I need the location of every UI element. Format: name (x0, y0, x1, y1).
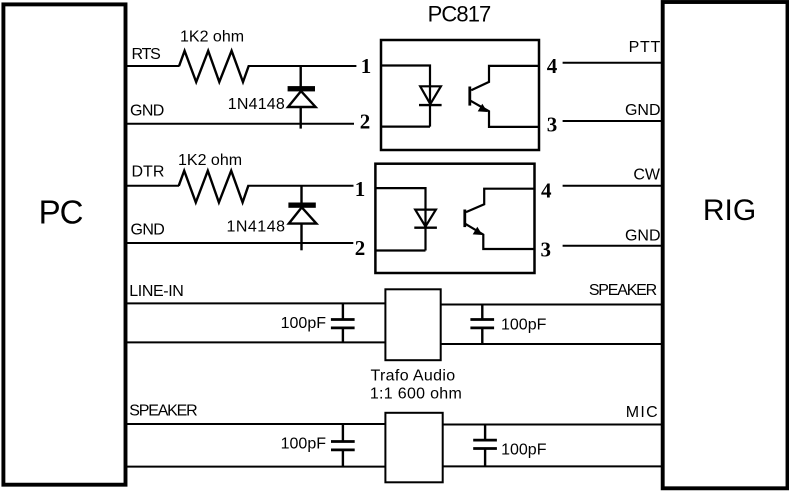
transformer T2 box (Trafo Audio) (385, 413, 442, 483)
pin 2 (U1) (360, 110, 371, 134)
LED inside U1 (419, 86, 442, 105)
svg-text:SPEAKER: SPEAKER (589, 282, 657, 299)
node SPEAKER label (PC side) (129, 403, 197, 420)
wire PTT from U1 pin4 to RIG (563, 62, 662, 64)
transformer T1 box (Trafo Audio) (385, 289, 440, 360)
node PTT label (629, 39, 661, 56)
diode D1 1N4148 label (228, 96, 285, 113)
capacitor C4 value (501, 442, 547, 459)
node DTR label (132, 163, 165, 180)
svg-text:LINE-IN: LINE-IN (129, 283, 183, 300)
optocoupler U2 PC817 box (375, 164, 534, 273)
svg-text:PC817: PC817 (428, 2, 491, 27)
node GND label (PC, row1) (130, 103, 164, 120)
svg-text:1K2 ohm: 1K2 ohm (178, 152, 242, 169)
svg-text:1:1 600 ohm: 1:1 600 ohm (370, 386, 462, 403)
capacitor C1 value (281, 315, 327, 332)
node GND label (PC, row2) (131, 221, 165, 238)
svg-text:MIC: MIC (626, 404, 659, 421)
capacitor C1 100pF (331, 303, 355, 342)
svg-text:4: 4 (547, 54, 558, 78)
svg-text:GND: GND (625, 227, 661, 244)
pin 1 (U2) (355, 177, 366, 201)
wire U1 pin1 internal (381, 66, 430, 127)
svg-text:RIG: RIG (703, 194, 756, 227)
pin 3 (U2) (540, 237, 551, 261)
svg-text:100pF: 100pF (501, 442, 547, 459)
node MIC label (626, 404, 659, 421)
wire GND from PC to opto U2 pin2 (126, 242, 353, 244)
pin 2 (U2) (355, 236, 366, 260)
svg-text:3: 3 (540, 237, 551, 261)
resistor R1 value 1K2 ohm (180, 28, 244, 45)
wire R2 to opto U2 pin1 (247, 185, 353, 187)
transformer T1 ratio label (370, 386, 462, 403)
svg-text:SPEAKER: SPEAKER (129, 403, 197, 420)
pin 4 (U1) (547, 54, 558, 78)
node LINE-IN label (129, 283, 183, 300)
diode D2 (1N4148) (288, 186, 316, 251)
wire LINE-IN top from PC to trafo T1 (126, 302, 385, 304)
svg-text:3: 3 (547, 112, 558, 136)
svg-text:100pF: 100pF (501, 317, 547, 334)
wire SPEAKER top from PC to trafo T2 (126, 423, 385, 425)
resistor R2 (179, 171, 249, 203)
node SPEAKER label (RIG side) (589, 282, 657, 299)
svg-text:1K2 ohm: 1K2 ohm (180, 28, 244, 45)
transformer T1 name label (370, 367, 455, 384)
svg-text:RTS: RTS (132, 46, 161, 63)
wire SPEAKER bottom from trafo T1 to RIG (441, 343, 662, 345)
wire GND from PC to opto U1 pin2 (126, 123, 354, 125)
resistor R1 (179, 51, 249, 82)
svg-text:4: 4 (541, 178, 552, 202)
capacitor C2 value (501, 317, 547, 334)
svg-text:PC: PC (39, 194, 83, 231)
RIG label (703, 194, 756, 227)
wire U2 pin2 internal (375, 249, 425, 251)
wire SPEAKER bottom from PC to trafo T2 (126, 466, 385, 468)
optocoupler U1 (PC817) box (381, 40, 539, 150)
node GND label (RIG, row2) (625, 227, 661, 244)
svg-text:PTT: PTT (629, 39, 661, 56)
diode D2 1N4148 label (226, 219, 285, 236)
svg-text:GND: GND (131, 221, 165, 238)
wire LINE-IN bottom from PC to trafo T1 (126, 341, 385, 343)
resistor R2 value 1K2 ohm (178, 152, 242, 169)
capacitor C3 100pF (331, 424, 355, 467)
LED inside U2 (414, 210, 437, 228)
wire DTR from PC to R2 (126, 185, 179, 187)
phototransistor inside U1 (470, 66, 539, 127)
wire SPEAKER top from trafo T1 to RIG (441, 304, 662, 306)
svg-text:1: 1 (355, 177, 366, 201)
capacitor C2 100pF (470, 305, 494, 345)
wire GND from U1 pin3 to RIG (563, 120, 662, 122)
svg-text:2: 2 (355, 236, 366, 260)
wire MIC top from trafo T2 to RIG (443, 424, 662, 426)
node GND label (RIG, row1) (625, 102, 661, 119)
wire U1 pin2 internal (381, 125, 430, 127)
svg-text:1: 1 (361, 54, 372, 78)
svg-text:CW: CW (633, 166, 661, 183)
pin 1 (U1) (361, 54, 372, 78)
svg-text:1N4148: 1N4148 (228, 96, 285, 113)
wire R1 to opto U1 pin1 (248, 65, 357, 67)
diode D1 (1N4148) (288, 66, 316, 129)
svg-text:DTR: DTR (132, 163, 165, 180)
svg-text:GND: GND (625, 102, 661, 119)
svg-text:GND: GND (130, 103, 164, 120)
wire CW from U2 pin4 to RIG (563, 185, 662, 187)
svg-text:100pF: 100pF (281, 436, 327, 453)
PC label (39, 194, 83, 231)
svg-text:2: 2 (360, 110, 371, 134)
PC box (3, 4, 125, 484)
wire RTS from PC to R1 (126, 65, 180, 67)
RIG box (663, 2, 788, 488)
capacitor C4 100pF (473, 425, 497, 467)
wire U2 pin1 internal (375, 188, 425, 250)
wire MIC bottom from trafo T2 to RIG (443, 465, 662, 467)
svg-text:Trafo Audio: Trafo Audio (370, 367, 455, 384)
pin 4 (U2) (541, 178, 552, 202)
svg-text:100pF: 100pF (281, 315, 327, 332)
pin 3 (U1) (547, 112, 558, 136)
node CW label (633, 166, 661, 183)
capacitor C3 value (281, 436, 327, 453)
title PC817 (428, 2, 491, 27)
node RTS label (132, 46, 161, 63)
phototransistor inside U2 (465, 189, 535, 249)
svg-text:1N4148: 1N4148 (226, 219, 285, 236)
wire GND from U2 pin3 to RIG (563, 245, 662, 247)
